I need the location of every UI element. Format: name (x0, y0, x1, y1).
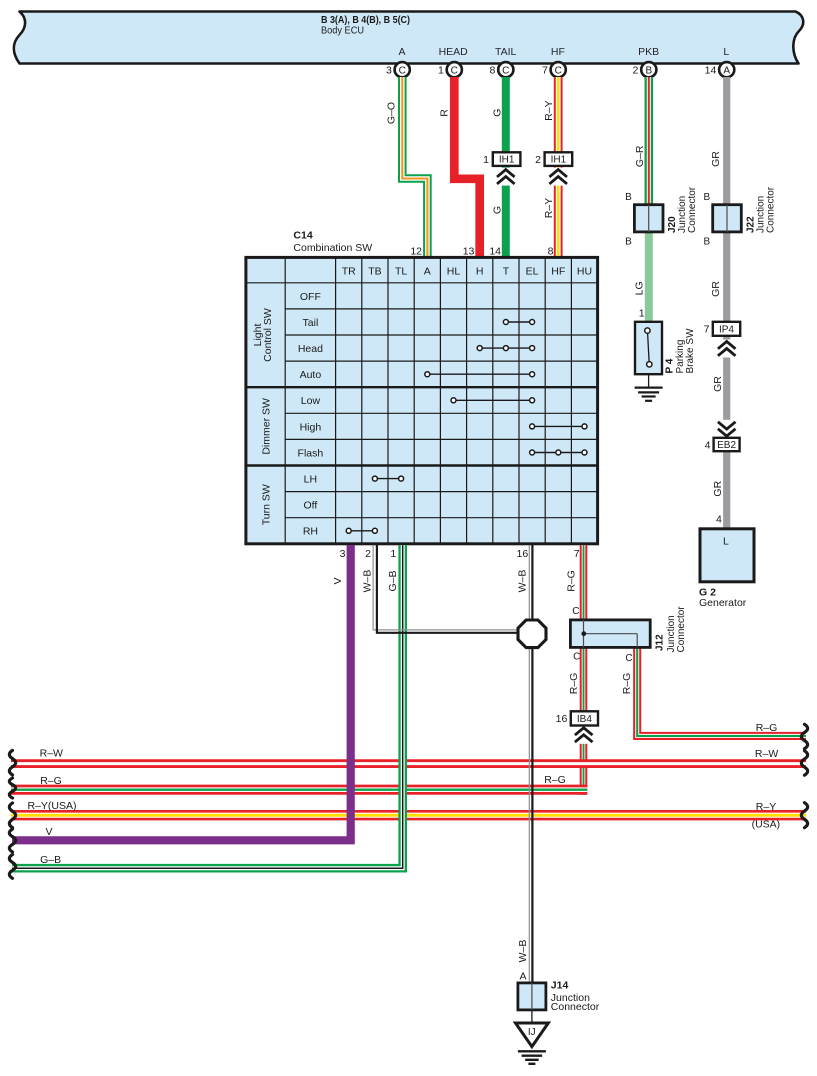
svg-text:12: 12 (410, 245, 422, 257)
svg-text:V: V (332, 577, 344, 584)
svg-text:13: 13 (463, 245, 475, 257)
svg-text:A: A (424, 265, 431, 277)
svg-text:GR: GR (710, 281, 722, 297)
svg-text:A: A (398, 46, 405, 58)
svg-text:16: 16 (556, 713, 568, 725)
svg-text:L: L (723, 535, 729, 547)
svg-text:Connector: Connector (687, 186, 698, 233)
svg-text:EB2: EB2 (717, 440, 736, 451)
svg-text:3: 3 (386, 65, 392, 77)
svg-text:R–W: R–W (40, 748, 63, 760)
svg-text:PKB: PKB (638, 46, 659, 58)
svg-text:A: A (519, 971, 526, 983)
svg-text:Low: Low (301, 395, 321, 407)
svg-text:R–G: R–G (566, 570, 578, 592)
svg-text:TB: TB (368, 265, 381, 277)
svg-text:HF: HF (551, 265, 565, 277)
svg-text:1: 1 (639, 308, 645, 320)
svg-text:R–G: R–G (756, 722, 778, 734)
svg-text:Control SW: Control SW (262, 308, 274, 362)
svg-text:High: High (300, 421, 322, 433)
svg-text:R–Y: R–Y (756, 801, 776, 813)
svg-text:HL: HL (447, 265, 461, 277)
svg-text:H: H (476, 265, 484, 277)
svg-text:2: 2 (365, 548, 371, 560)
svg-text:TAIL: TAIL (495, 46, 517, 58)
svg-text:C: C (572, 606, 579, 617)
svg-text:J14: J14 (551, 979, 569, 991)
svg-text:L: L (723, 46, 729, 58)
svg-text:G: G (492, 109, 504, 117)
svg-text:B: B (703, 192, 710, 203)
svg-text:Combination SW: Combination SW (293, 242, 372, 254)
svg-text:C: C (502, 65, 509, 76)
svg-text:A: A (723, 65, 730, 76)
svg-text:LG: LG (634, 281, 646, 295)
svg-text:7: 7 (704, 324, 710, 336)
svg-text:W–B: W–B (362, 570, 374, 593)
svg-text:G: G (492, 206, 504, 214)
svg-text:Tail: Tail (303, 317, 319, 329)
svg-text:J12: J12 (655, 634, 666, 651)
svg-text:Off: Off (303, 500, 317, 512)
svg-text:G–R: G–R (634, 145, 646, 167)
svg-text:Dimmer SW: Dimmer SW (260, 398, 272, 455)
svg-text:Turn SW: Turn SW (260, 484, 272, 525)
svg-text:HU: HU (577, 265, 592, 277)
svg-text:Connector: Connector (551, 1001, 600, 1013)
svg-text:R: R (439, 109, 451, 117)
svg-text:LH: LH (304, 474, 317, 486)
svg-text:IP4: IP4 (719, 324, 734, 335)
svg-text:GR: GR (712, 376, 724, 392)
svg-text:4: 4 (716, 514, 722, 526)
svg-text:R–G: R–G (568, 673, 580, 695)
svg-text:1: 1 (483, 154, 489, 166)
svg-text:W–B: W–B (517, 940, 529, 963)
svg-text:J20: J20 (667, 216, 678, 233)
svg-text:T: T (503, 265, 510, 277)
svg-text:C14: C14 (293, 230, 312, 242)
svg-text:Connector: Connector (766, 186, 777, 233)
svg-text:IH1: IH1 (551, 155, 567, 166)
svg-text:R–Y(USA): R–Y(USA) (27, 800, 76, 812)
svg-text:B: B (625, 237, 632, 248)
svg-text:GR: GR (712, 480, 724, 496)
svg-text:R–G: R–G (40, 775, 62, 787)
svg-text:W–B: W–B (517, 570, 529, 593)
svg-text:7: 7 (542, 65, 548, 77)
svg-text:IH1: IH1 (499, 155, 515, 166)
svg-text:Brake SW: Brake SW (685, 328, 696, 374)
svg-text:Head: Head (298, 343, 323, 355)
svg-text:14: 14 (705, 65, 717, 77)
svg-text:Generator: Generator (699, 597, 747, 609)
svg-text:C: C (625, 653, 632, 664)
svg-text:Connector: Connector (676, 606, 687, 653)
svg-text:8: 8 (490, 65, 496, 77)
svg-text:16: 16 (517, 548, 529, 560)
svg-text:GR: GR (710, 151, 722, 167)
svg-text:P 4: P 4 (664, 358, 675, 373)
svg-text:C: C (451, 65, 458, 76)
svg-text:R–W: R–W (755, 748, 778, 760)
svg-text:OFF: OFF (300, 291, 321, 303)
svg-text:B: B (703, 237, 710, 248)
svg-text:R–Y: R–Y (543, 100, 555, 120)
svg-text:B: B (625, 192, 632, 203)
svg-text:C: C (555, 65, 562, 76)
svg-text:4: 4 (705, 439, 711, 451)
svg-text:8: 8 (548, 245, 554, 257)
svg-text:TR: TR (342, 265, 356, 277)
svg-text:3: 3 (340, 548, 346, 560)
svg-text:IJ: IJ (528, 1027, 536, 1038)
svg-text:C: C (399, 65, 406, 76)
svg-text:2: 2 (535, 154, 541, 166)
svg-text:EL: EL (526, 265, 539, 277)
svg-text:B: B (645, 65, 652, 76)
svg-text:R–Y: R–Y (543, 198, 555, 218)
svg-text:G–B: G–B (387, 570, 399, 591)
svg-text:R–G: R–G (544, 774, 566, 786)
svg-text:Flash: Flash (298, 447, 324, 459)
svg-text:TL: TL (395, 265, 407, 277)
svg-text:1: 1 (438, 65, 444, 77)
svg-text:(USA): (USA) (752, 819, 781, 831)
svg-text:G–O: G–O (385, 102, 397, 124)
svg-text:R–G: R–G (621, 673, 633, 695)
svg-text:14: 14 (489, 245, 501, 257)
svg-text:1: 1 (390, 548, 396, 560)
svg-text:2: 2 (633, 65, 639, 77)
svg-text:IB4: IB4 (577, 714, 592, 725)
svg-text:HEAD: HEAD (439, 46, 469, 58)
svg-text:G–B: G–B (40, 854, 61, 866)
svg-text:RH: RH (303, 526, 318, 538)
svg-text:7: 7 (574, 548, 580, 560)
svg-text:Auto: Auto (300, 369, 322, 381)
svg-text:HF: HF (551, 46, 565, 58)
svg-text:J22: J22 (745, 216, 756, 233)
svg-text:V: V (45, 826, 52, 838)
svg-text:Body ECU: Body ECU (321, 25, 364, 37)
svg-text:C: C (573, 652, 580, 663)
